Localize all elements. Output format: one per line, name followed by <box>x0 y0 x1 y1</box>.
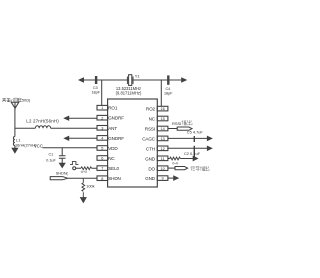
pin names left <box>108 106 124 182</box>
wire row14 <box>168 128 178 130</box>
label small row11 <box>172 162 178 164</box>
pin numbers right <box>160 107 164 181</box>
svg-text:RSSI: RSSI <box>145 127 155 132</box>
svg-text:C5 4.7uF: C5 4.7uF <box>187 130 204 135</box>
svg-text:RO1: RO1 <box>108 106 118 111</box>
ground arrow right (RO2 net) <box>182 78 186 82</box>
svg-text:DO: DO <box>148 166 155 171</box>
svg-text:VCC: VCC <box>34 144 43 149</box>
svg-text:6: 6 <box>101 157 103 161</box>
wire pin 2 GNDRF <box>68 117 97 119</box>
svg-text:C3: C3 <box>93 86 98 90</box>
ground (C1) <box>60 163 65 167</box>
ground (pin 4) <box>65 136 69 140</box>
wire row10 <box>168 167 175 169</box>
pulse waveform symbol <box>70 162 78 165</box>
resistor R2 100k <box>82 178 85 197</box>
resistor R3 (pin 11) <box>170 157 181 160</box>
wire antenna stem <box>14 108 16 148</box>
svg-text:11: 11 <box>161 157 165 161</box>
crystal Y1 <box>127 77 133 85</box>
capacitor C2 <box>193 146 195 159</box>
svg-text:5: 5 <box>101 147 103 151</box>
pin boxes left <box>97 105 108 180</box>
svg-text:16: 16 <box>160 107 164 111</box>
antenna <box>11 102 19 110</box>
capacitor C4 <box>167 75 169 84</box>
svg-text:2: 2 <box>101 116 103 120</box>
svg-text:14: 14 <box>160 127 164 131</box>
svg-text:18pF: 18pF <box>92 91 101 95</box>
svg-text:8: 8 <box>101 177 103 181</box>
svg-text:100k: 100k <box>86 183 94 188</box>
svg-text:RSSI: RSSI <box>172 121 181 126</box>
svg-text:SEL0: SEL0 <box>108 166 119 171</box>
svg-text:50Ω): 50Ω) <box>22 99 31 103</box>
wire row12 <box>168 147 208 149</box>
svg-text:C4: C4 <box>166 87 171 91</box>
net tag RSSI <box>177 127 192 130</box>
svg-text:GND: GND <box>145 156 156 161</box>
svg-text:18pF: 18pF <box>164 92 173 96</box>
svg-text:NC: NC <box>108 156 115 161</box>
svg-text:NC: NC <box>149 117 156 122</box>
resistor R1 (SEL0 pulldown) <box>81 167 92 170</box>
svg-text:GNDRF: GNDRF <box>108 136 124 141</box>
ground arrow (CTH net) <box>207 146 211 150</box>
svg-text:RO2: RO2 <box>146 107 156 112</box>
svg-text:Y1: Y1 <box>135 73 141 78</box>
svg-text:9: 9 <box>162 177 164 181</box>
wire drop to pin16 <box>160 80 162 106</box>
svg-text:GND: GND <box>145 176 156 181</box>
switch terminal circle SEL0 <box>73 167 76 170</box>
svg-text:4: 4 <box>101 137 103 141</box>
capacitor C3 <box>95 76 97 84</box>
wire row8 <box>68 177 98 179</box>
svg-text:(9.81711MHz): (9.81711MHz) <box>116 90 142 95</box>
ground arrow (CAGC net) <box>207 136 211 140</box>
wire pin 4 GNDRF <box>68 137 97 139</box>
ground (R2) <box>81 198 86 203</box>
svg-text:CTH: CTH <box>146 146 155 151</box>
svg-text:15: 15 <box>160 117 164 121</box>
antenna label <box>2 98 22 102</box>
wire row5 VDD <box>43 147 98 149</box>
IC U1 body (16-pin receiver) <box>108 99 158 187</box>
svg-text:SHDN: SHDN <box>108 176 121 181</box>
ground arrow left (RO1 net) <box>79 78 83 82</box>
svg-text:12: 12 <box>160 147 164 151</box>
wire row13 <box>168 137 208 139</box>
ground (antenna L1) <box>12 148 17 153</box>
capacitor C1 <box>59 148 66 163</box>
net tag DO <box>175 167 188 170</box>
wire row9 <box>168 177 174 179</box>
wire row3 / node ANT <box>15 127 97 129</box>
inductor L1 <box>13 137 15 146</box>
ground (pin 2) <box>65 116 69 120</box>
ground (pin 9 GND) <box>174 176 178 180</box>
svg-text:SHDN(: SHDN( <box>56 172 69 176</box>
capacitor C5 <box>193 136 195 142</box>
svg-text:0.1uF: 0.1uF <box>46 158 56 162</box>
inductor L2 <box>35 126 50 129</box>
pin boxes right <box>157 106 168 180</box>
top wire <box>83 79 186 81</box>
svg-text:10: 10 <box>160 167 164 171</box>
wire row11 <box>168 158 194 160</box>
wire row7 <box>76 167 97 169</box>
svg-text:3: 3 <box>101 126 103 130</box>
wire drop to pin1 <box>101 80 103 105</box>
svg-text:ANT: ANT <box>108 126 117 131</box>
svg-text:7: 7 <box>101 167 103 171</box>
svg-text:CAGC: CAGC <box>142 137 156 142</box>
svg-text:VDD: VDD <box>108 146 118 151</box>
ground (pin 11 net) <box>193 156 197 160</box>
svg-text:GNDRF: GNDRF <box>108 116 124 121</box>
pin numbers left <box>101 106 103 181</box>
label small row7 <box>81 171 87 173</box>
svg-text:C2 0.1uF: C2 0.1uF <box>184 151 201 156</box>
svg-text:1: 1 <box>101 106 103 110</box>
svg-text:C1: C1 <box>49 152 54 156</box>
svg-text:L2 27nH(56nH): L2 27nH(56nH) <box>26 119 59 124</box>
label signal output <box>191 166 209 171</box>
pin names right <box>142 107 156 182</box>
svg-text:13: 13 <box>160 137 164 141</box>
